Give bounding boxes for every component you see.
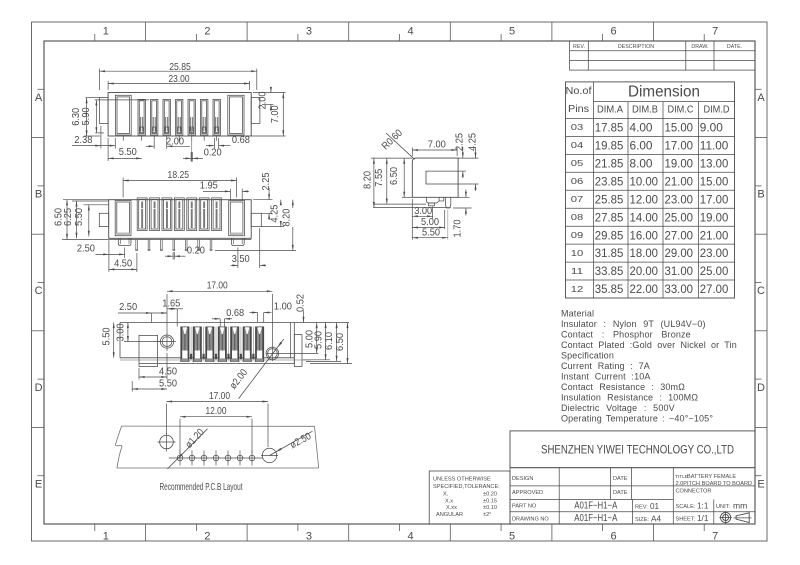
- svg-text:1.95: 1.95: [200, 181, 218, 192]
- svg-text:15.00: 15.00: [665, 121, 694, 135]
- svg-text:12: 12: [571, 284, 584, 294]
- svg-text:27.00: 27.00: [665, 228, 694, 242]
- svg-text:4.00: 4.00: [630, 121, 653, 135]
- svg-text:DIM.C: DIM.C: [668, 105, 694, 116]
- svg-text:5.90: 5.90: [313, 331, 324, 349]
- dim 1.65 bottom view: [176, 309, 178, 327]
- zone band dividers top: [145, 22, 147, 41]
- svg-text:APPROVED: APPROVED: [512, 490, 543, 496]
- svg-text:05: 05: [571, 158, 584, 168]
- dim 5.50 bottom view bottom: [131, 381, 133, 392]
- svg-text:23.00: 23.00: [169, 74, 190, 85]
- title block main grid: [510, 468, 755, 524]
- svg-text:19.85: 19.85: [595, 139, 624, 153]
- svg-text:4.25: 4.25: [467, 133, 478, 151]
- svg-text:ANGULAR: ANGULAR: [436, 512, 463, 518]
- svg-text:A: A: [757, 92, 765, 104]
- svg-text:23.00: 23.00: [665, 192, 694, 206]
- dim 4.50 front view: [136, 253, 138, 272]
- svg-text:5.50: 5.50: [102, 327, 113, 345]
- svg-text:2.00: 2.00: [257, 91, 268, 109]
- svg-text:CONNECTOR: CONNECTOR: [676, 489, 712, 495]
- svg-text:Material: Material: [561, 309, 594, 319]
- svg-text:X.x: X.x: [445, 499, 453, 505]
- svg-text:4: 4: [407, 531, 413, 543]
- svg-text:DATE.: DATE.: [727, 44, 742, 50]
- svg-text:4.25: 4.25: [269, 204, 280, 222]
- svg-text:11: 11: [571, 266, 584, 276]
- svg-text:E: E: [757, 478, 764, 490]
- svg-text:Instant Current :10A: Instant Current :10A: [561, 372, 651, 382]
- dim 2.50 front view: [108, 240, 110, 272]
- svg-text:3.50: 3.50: [232, 254, 250, 265]
- pcb small holes row: [169, 457, 263, 459]
- svg-text:23.00: 23.00: [700, 246, 729, 260]
- svg-text:25.00: 25.00: [665, 210, 694, 224]
- svg-text:2: 2: [204, 26, 210, 38]
- front view left foot: [118, 238, 131, 245]
- svg-text:31.00: 31.00: [665, 264, 694, 278]
- svg-text:DESIGN: DESIGN: [512, 476, 533, 482]
- svg-text:Dimension: Dimension: [628, 84, 700, 101]
- svg-text:25.85: 25.85: [595, 192, 624, 206]
- svg-text:8.00: 8.00: [630, 157, 653, 171]
- svg-text:10: 10: [571, 248, 584, 258]
- svg-text:6.50: 6.50: [335, 333, 346, 351]
- dim 23.00 top view body width: [107, 81, 109, 90]
- leader R0.60: [386, 133, 415, 159]
- svg-text:4: 4: [407, 26, 413, 38]
- svg-text:29.00: 29.00: [665, 246, 694, 260]
- svg-text:SHEET:: SHEET:: [676, 517, 696, 523]
- dim 0.68 top view slot width: [213, 138, 215, 149]
- dim 6.25 front view left: [72, 200, 109, 202]
- dim 0.52 bottom view: [303, 311, 305, 323]
- svg-text:5.50: 5.50: [159, 378, 177, 389]
- svg-text:No.of: No.of: [566, 85, 592, 97]
- svg-text:C: C: [35, 285, 43, 297]
- projection cone symbol: [736, 513, 749, 523]
- dim 4.25 side view right: [458, 183, 478, 185]
- svg-text:0.20: 0.20: [204, 148, 222, 159]
- svg-text:±0.10: ±0.10: [483, 505, 497, 511]
- front view right tab: [251, 213, 261, 226]
- dim 17.00 pcb: [166, 404, 168, 435]
- svg-text:22.00: 22.00: [630, 282, 659, 296]
- svg-text:20.00: 20.00: [630, 264, 659, 278]
- svg-text:21.00: 21.00: [665, 174, 694, 188]
- svg-text:3.00: 3.00: [414, 206, 432, 217]
- pcb left mounting hole: [160, 435, 174, 449]
- top view left mounting tab: [99, 98, 108, 124]
- svg-text:UNLESS OTHERWISE: UNLESS OTHERWISE: [433, 476, 491, 482]
- dim 3.00 side view bottom: [432, 207, 434, 219]
- svg-text:DRAWING NO: DRAWING NO: [512, 516, 549, 522]
- svg-text:D: D: [35, 382, 43, 394]
- svg-text:2.0PITCH BOARD TO BOARD: 2.0PITCH BOARD TO BOARD: [676, 481, 753, 487]
- dim 17.00 bottom view: [167, 290, 272, 292]
- svg-text:5.50: 5.50: [119, 147, 137, 158]
- svg-text:REV.: REV.: [573, 44, 585, 50]
- front view contact slots: [137, 198, 147, 231]
- svg-text:7: 7: [712, 531, 718, 543]
- svg-text:17.00: 17.00: [209, 391, 230, 402]
- svg-text:7.00: 7.00: [428, 140, 446, 151]
- dim 1.95 front view: [229, 189, 231, 200]
- dim 6.50 bottom view right: [310, 363, 352, 365]
- dim 2.25 side view right: [458, 157, 478, 159]
- svg-text:14.00: 14.00: [630, 210, 659, 224]
- svg-text:03: 03: [571, 122, 584, 132]
- svg-text:1: 1: [103, 531, 109, 543]
- svg-text:6.00: 6.00: [630, 139, 653, 153]
- svg-text:04: 04: [571, 140, 584, 150]
- zone band dividers bottom: [145, 524, 147, 541]
- svg-text:2.25: 2.25: [455, 133, 466, 151]
- side view body outline: [412, 158, 458, 197]
- svg-text:09: 09: [571, 230, 584, 240]
- svg-text:6.10: 6.10: [324, 332, 335, 350]
- dim 3.00 bottom view left: [124, 341, 161, 343]
- bottom view slot gap walls: [190, 327, 192, 359]
- svg-text:PART NO: PART NO: [512, 504, 537, 510]
- svg-text:9.00: 9.00: [700, 121, 723, 135]
- dim 5.00 side view bottom: [444, 210, 446, 229]
- svg-text:23.85: 23.85: [595, 174, 624, 188]
- bottom view left peg block: [139, 335, 158, 366]
- svg-text:mm: mm: [733, 501, 747, 511]
- svg-text:3.00: 3.00: [116, 323, 127, 341]
- svg-text:19.00: 19.00: [665, 157, 694, 171]
- svg-text:06: 06: [571, 176, 584, 186]
- svg-text:5: 5: [509, 26, 515, 38]
- dim 4.25 front view right: [261, 226, 284, 228]
- svg-text:6: 6: [611, 26, 617, 38]
- svg-text:Operating Temperature : −40°~1: Operating Temperature : −40°~105°: [561, 414, 713, 424]
- svg-text:2.00: 2.00: [166, 136, 184, 147]
- svg-text:Current Rating : 7A: Current Rating : 7A: [561, 361, 650, 371]
- svg-text:12.00: 12.00: [630, 192, 659, 206]
- dim 7.00 top view right: [251, 135, 285, 137]
- dim 5.50 top view: [107, 138, 109, 161]
- svg-text:Recommended P.C.B Layout: Recommended P.C.B Layout: [160, 482, 243, 493]
- svg-text:B: B: [35, 189, 42, 201]
- bottom view left hole: [160, 335, 173, 348]
- svg-text:7.00: 7.00: [270, 105, 281, 123]
- dim 25.85 top view overall width: [98, 69, 100, 90]
- svg-text:REV:: REV:: [635, 505, 648, 511]
- svg-text:0.20: 0.20: [187, 246, 205, 257]
- svg-text:5.50: 5.50: [422, 227, 440, 238]
- svg-text:19.00: 19.00: [700, 210, 729, 224]
- svg-text:10.00: 10.00: [630, 174, 659, 188]
- bottom view lower edge: [139, 362, 294, 364]
- dim 5.90 top view left: [95, 99, 149, 101]
- top view body outline: [108, 93, 251, 137]
- svg-text:8.20: 8.20: [363, 171, 374, 189]
- svg-text:X.: X.: [443, 492, 449, 498]
- svg-text:5: 5: [509, 531, 515, 543]
- front view left end block: [115, 200, 131, 235]
- zone band dividers right: [755, 137, 767, 139]
- svg-text:2.38: 2.38: [74, 135, 92, 146]
- dim 5.50 bottom view left: [113, 323, 115, 358]
- svg-text:1.00: 1.00: [274, 301, 292, 312]
- svg-text:5.90: 5.90: [81, 107, 92, 125]
- bottom view hidden line: [120, 359, 311, 361]
- svg-text:12.00: 12.00: [206, 406, 227, 417]
- svg-text:15.00: 15.00: [700, 174, 729, 188]
- top view right mounting tab: [251, 98, 260, 124]
- svg-text:B: B: [757, 189, 764, 201]
- dim 6.50 side view: [402, 196, 412, 198]
- front view solder pins: [135, 240, 137, 250]
- svg-text:17.00: 17.00: [700, 192, 729, 206]
- svg-text:E: E: [35, 478, 42, 490]
- svg-text:27.00: 27.00: [700, 282, 729, 296]
- svg-text:DIM.B: DIM.B: [632, 105, 658, 116]
- dim 6.30 top view left: [86, 97, 101, 99]
- svg-text:18.25: 18.25: [168, 170, 190, 181]
- svg-text:13.00: 13.00: [700, 157, 729, 171]
- revision table grid: [570, 41, 755, 70]
- dim 1.70 side view right: [458, 196, 469, 198]
- svg-text:Contact Plated :Gold over Nick: Contact Plated :Gold over Nickel or Tin: [561, 340, 737, 350]
- svg-text:Dielectric Voltage : 500V: Dielectric Voltage : 500V: [561, 403, 675, 413]
- top view centerline slot5: [191, 128, 193, 162]
- svg-text:2.50: 2.50: [77, 244, 95, 255]
- pcb board outline: [116, 426, 319, 468]
- svg-text:1:1: 1:1: [697, 501, 709, 510]
- side view foot block: [429, 203, 435, 206]
- third angle projection symbol: [721, 512, 731, 522]
- zone band dividers left: [32, 137, 45, 139]
- dim 8.20 front view right: [215, 250, 296, 252]
- dim 8.20 side view: [371, 157, 412, 159]
- svg-text:D: D: [757, 382, 765, 394]
- svg-text:C: C: [757, 285, 765, 297]
- bottom view right hole: [266, 347, 279, 360]
- svg-text:±0.15: ±0.15: [483, 499, 497, 505]
- svg-text:A01F−H1−A: A01F−H1−A: [574, 513, 617, 524]
- dim 18.25 front view: [122, 178, 124, 198]
- top view left end slot: [115, 95, 131, 135]
- side view foot: [426, 197, 439, 203]
- svg-text:17.00: 17.00: [665, 139, 694, 153]
- svg-text:27.85: 27.85: [595, 210, 624, 224]
- svg-text:08: 08: [571, 212, 584, 222]
- svg-text:Contact Resistance : 30mΩ: Contact Resistance : 30mΩ: [561, 382, 685, 392]
- zone center ticks: [94, 34, 96, 41]
- dim 4.50 bottom view bottom: [138, 368, 140, 380]
- dim 0.68 bottom view: [219, 319, 221, 327]
- svg-text:8.20: 8.20: [282, 208, 293, 226]
- svg-text:1: 1: [103, 26, 109, 38]
- dim 0.20 front view pin: [172, 252, 174, 260]
- svg-text:0.68: 0.68: [226, 308, 244, 319]
- svg-text:2.25: 2.25: [261, 172, 272, 190]
- dim 2.00 top view pitch: [153, 141, 155, 149]
- svg-text:A01F−H1−A: A01F−H1−A: [574, 501, 617, 512]
- top view slot center ticks below body: [122, 136, 124, 141]
- svg-text:07: 07: [571, 194, 584, 204]
- side view notch: [426, 171, 458, 184]
- svg-text:6.25: 6.25: [63, 208, 74, 226]
- svg-text:DRAW.: DRAW.: [691, 44, 708, 50]
- svg-text:25.00: 25.00: [700, 264, 729, 278]
- svg-text:BATTERY FEMALE: BATTERY FEMALE: [687, 474, 736, 480]
- svg-text:DESCRIPTION: DESCRIPTION: [618, 44, 654, 50]
- svg-text:Specification: Specification: [561, 351, 614, 361]
- svg-text:33.00: 33.00: [665, 282, 694, 296]
- dim 2.25 front view right: [253, 199, 272, 201]
- svg-text:4.50: 4.50: [114, 259, 132, 270]
- svg-text:01: 01: [650, 502, 660, 511]
- svg-text:17.85: 17.85: [595, 121, 624, 135]
- dim 2.50 bottom view: [151, 313, 153, 323]
- svg-text:5.50: 5.50: [74, 208, 85, 226]
- svg-text:1.65: 1.65: [162, 298, 180, 309]
- leader phi 2.00: [239, 339, 284, 399]
- svg-text:21.85: 21.85: [595, 157, 624, 171]
- dim 3.50 front view: [237, 248, 239, 269]
- pcb right mounting hole: [262, 448, 276, 462]
- svg-text:1/1: 1/1: [697, 514, 709, 523]
- svg-text:Contact : Phosphor Bronze: Contact : Phosphor Bronze: [561, 330, 691, 340]
- svg-text:Insulator : Nylon 9T (UL94V−0): Insulator : Nylon 9T (UL94V−0): [561, 319, 706, 329]
- dim 2.38 top view: [100, 126, 102, 149]
- top view right end slot: [228, 95, 244, 135]
- svg-text:UNIT:: UNIT:: [716, 504, 730, 510]
- svg-text:16.00: 16.00: [630, 228, 659, 242]
- front view body outline: [109, 200, 252, 239]
- dim 1.00 bottom view: [257, 313, 259, 323]
- svg-text:6.50: 6.50: [389, 167, 400, 185]
- svg-text:DIM.A: DIM.A: [597, 105, 623, 116]
- dim 0.20 top view: [190, 152, 192, 162]
- svg-text:Pins: Pins: [568, 103, 589, 115]
- svg-text:35.85: 35.85: [595, 282, 624, 296]
- svg-text:DATE: DATE: [613, 490, 628, 496]
- front view right foot: [232, 238, 245, 245]
- svg-text:DATE: DATE: [613, 476, 628, 482]
- svg-text:2: 2: [204, 531, 210, 543]
- svg-text:A4: A4: [651, 514, 661, 523]
- svg-text:17.00: 17.00: [207, 281, 228, 292]
- svg-text:0.52: 0.52: [295, 294, 306, 312]
- svg-text:3: 3: [306, 26, 312, 38]
- dim 5.00 bottom view right: [316, 323, 318, 354]
- svg-text:±0.20: ±0.20: [483, 492, 497, 498]
- dim 5.90 bottom view right: [303, 359, 330, 361]
- svg-text:A: A: [35, 92, 43, 104]
- svg-text:18.00: 18.00: [630, 246, 659, 260]
- svg-text:29.85: 29.85: [595, 228, 624, 242]
- svg-text:7: 7: [712, 26, 718, 38]
- svg-text:6: 6: [611, 531, 617, 543]
- svg-text:3: 3: [306, 531, 312, 543]
- front view left tab: [99, 213, 108, 226]
- dim 6.50 front view left: [63, 199, 109, 201]
- dim 7.00 side view: [411, 148, 413, 157]
- title block tolerance box: [429, 471, 510, 524]
- bottom view body outline: [120, 322, 349, 324]
- title block company box: [510, 431, 755, 468]
- svg-text:±2°: ±2°: [483, 512, 491, 518]
- svg-text:SHENZHEN YIWEI TECHNOLOGY CO.,: SHENZHEN YIWEI TECHNOLOGY CO.,LTD: [541, 443, 734, 457]
- dim 12.00 pcb: [179, 419, 181, 454]
- front view right end block: [229, 200, 245, 235]
- svg-text:25.85: 25.85: [169, 62, 191, 73]
- leader phi 1.20: [168, 429, 208, 469]
- pin dimension table grid: [566, 82, 735, 298]
- dim 6.10 bottom view right: [306, 360, 341, 362]
- svg-text:DIM.D: DIM.D: [704, 105, 730, 116]
- svg-text:2.50: 2.50: [119, 302, 137, 313]
- svg-text:SIZE:: SIZE:: [635, 517, 649, 523]
- svg-text:31.85: 31.85: [595, 246, 624, 260]
- svg-text:11.00: 11.00: [700, 139, 729, 153]
- svg-text:7.55: 7.55: [374, 168, 385, 186]
- bottom view right peg: [294, 335, 302, 367]
- svg-text:21.00: 21.00: [700, 228, 729, 242]
- bottom view contact slots dark: [180, 327, 189, 363]
- leader phi 2.50: [270, 431, 313, 455]
- svg-text:Insulation Resistance : 100MΩ: Insulation Resistance : 100MΩ: [561, 393, 698, 403]
- svg-text:33.85: 33.85: [595, 264, 624, 278]
- svg-text:0.68: 0.68: [232, 135, 250, 146]
- svg-text:1.70: 1.70: [453, 219, 464, 237]
- dim 2.00 top view right: [253, 92, 286, 94]
- svg-text:X.xx: X.xx: [446, 505, 457, 511]
- svg-text:4.50: 4.50: [159, 366, 177, 377]
- svg-text:SPECIFIED,TOLERANCE:: SPECIFIED,TOLERANCE:: [433, 484, 500, 490]
- top view contact slots: [138, 99, 145, 135]
- dim 7.55 side view: [373, 203, 426, 205]
- side view pin: [445, 197, 450, 208]
- svg-text:SCALE:: SCALE:: [676, 504, 696, 510]
- drawing sheet inner frame: [44, 41, 755, 524]
- dim 5.50 side view bottom: [411, 199, 413, 240]
- dim 5.50 front view left: [84, 204, 109, 206]
